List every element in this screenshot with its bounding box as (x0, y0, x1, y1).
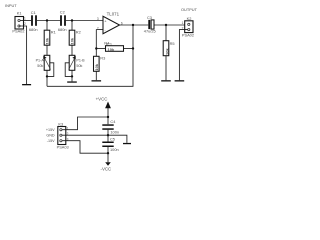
svg-text:10k: 10k (164, 48, 169, 55)
svg-text:P1-B: P1-B (76, 58, 85, 62)
svg-text:-VCC: -VCC (101, 167, 112, 172)
svg-text:PSA02: PSA02 (182, 32, 194, 37)
svg-text:R1: R1 (51, 29, 56, 34)
svg-text:2: 2 (24, 22, 26, 26)
svg-text:K1: K1 (17, 11, 22, 16)
svg-text:C1: C1 (31, 10, 36, 15)
svg-text:100n: 100n (110, 147, 119, 152)
svg-text:6: 6 (121, 22, 123, 26)
svg-text:-15V: -15V (47, 139, 55, 143)
svg-text:+VCC: +VCC (96, 97, 108, 102)
svg-text:R4: R4 (104, 40, 110, 45)
svg-text:3: 3 (67, 137, 69, 141)
svg-text:R2: R2 (76, 29, 81, 34)
svg-text:OUTPUT: OUTPUT (181, 7, 198, 12)
svg-text:10k: 10k (70, 37, 75, 44)
svg-text:1: 1 (24, 17, 26, 21)
svg-text:+: + (104, 18, 107, 23)
svg-text:C4: C4 (110, 119, 116, 124)
svg-text:10k: 10k (94, 63, 99, 70)
svg-text:1: 1 (182, 21, 184, 25)
svg-text:K3: K3 (58, 122, 63, 127)
svg-text:2: 2 (67, 132, 69, 136)
svg-text:680n: 680n (58, 27, 67, 32)
svg-text:1: 1 (67, 126, 69, 130)
svg-text:50k: 50k (37, 64, 43, 68)
svg-text:10k: 10k (45, 37, 50, 44)
svg-text:C5: C5 (110, 136, 115, 141)
svg-text:C2: C2 (60, 9, 65, 14)
svg-text:3: 3 (97, 17, 99, 21)
svg-text:P1-A: P1-A (36, 58, 45, 62)
svg-text:+15V: +15V (46, 128, 55, 132)
svg-text:10k: 10k (108, 47, 115, 52)
svg-text:47u/25: 47u/25 (144, 29, 156, 34)
svg-text:R5: R5 (170, 41, 175, 46)
svg-text:2: 2 (182, 26, 184, 30)
svg-text:R3: R3 (100, 56, 105, 61)
svg-text:TL071: TL071 (107, 11, 120, 16)
svg-text:50k: 50k (76, 64, 82, 68)
svg-text:PSA03: PSA03 (57, 145, 69, 150)
svg-text:680n: 680n (29, 27, 38, 32)
svg-text:K2: K2 (187, 16, 192, 21)
svg-text:100n: 100n (110, 130, 119, 135)
svg-text:INPUT: INPUT (5, 3, 17, 8)
svg-text:2: 2 (97, 26, 99, 30)
svg-text:C3: C3 (147, 15, 152, 20)
svg-text:PSA02: PSA02 (12, 29, 24, 34)
svg-text:GND: GND (46, 134, 55, 138)
